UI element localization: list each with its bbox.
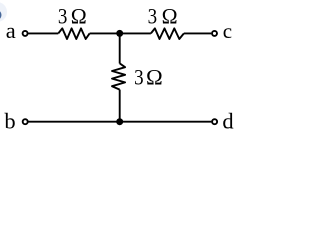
svg-text:Ω: Ω xyxy=(162,3,178,28)
terminal d xyxy=(212,119,217,124)
label 3 ohm for R3 xyxy=(134,64,163,89)
terminal a xyxy=(23,31,28,36)
wire R1 to R2 through top node xyxy=(90,32,151,34)
svg-text:3: 3 xyxy=(58,3,68,28)
svg-text:d: d xyxy=(222,108,233,133)
junction node (bottom) xyxy=(116,118,123,125)
resistor R1 xyxy=(58,28,89,39)
terminal c xyxy=(212,31,217,36)
svg-text:b: b xyxy=(4,109,15,134)
terminal b xyxy=(23,119,28,124)
svg-text:Ω: Ω xyxy=(146,64,163,89)
resistor R2 xyxy=(151,28,184,39)
wire R2 to c xyxy=(184,32,211,34)
resistor R3 (vertical) xyxy=(112,63,125,89)
wire top node to R3 xyxy=(119,33,121,63)
cropped blue page-margin icon (halo) xyxy=(0,2,7,22)
svg-text:a: a xyxy=(6,18,16,43)
junction node (top) xyxy=(116,30,123,37)
wire R3 to bottom node xyxy=(119,90,121,122)
wire b to d along bottom xyxy=(28,121,211,123)
label 3 ohm for R2 xyxy=(148,3,178,28)
label 3 ohm for R1 xyxy=(58,3,87,28)
wire a to R1 xyxy=(28,32,58,34)
svg-text:3: 3 xyxy=(148,3,158,28)
svg-text:3: 3 xyxy=(134,64,144,89)
svg-text:c: c xyxy=(223,19,232,43)
svg-text:Ω: Ω xyxy=(71,3,87,28)
cropped blue page-margin icon (dark edge) xyxy=(0,10,2,21)
